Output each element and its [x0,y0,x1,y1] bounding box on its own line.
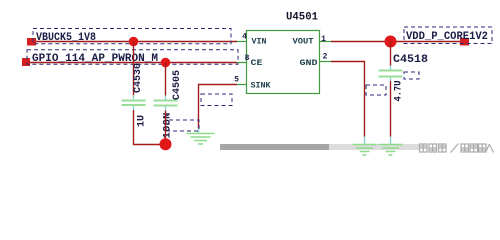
pin 8 stub (CE) [237,62,247,64]
svg-text:SINK: SINK [251,80,272,90]
ground (C4518) [379,137,403,156]
node VDD_P_CORE1V2 port square [460,38,469,46]
wire C4505 top lead [165,63,167,96]
node GPIO_114_AP_PWRON_M port square [22,58,30,66]
svg-text:GND: GND [300,58,318,68]
svg-text:1: 1 [321,35,326,44]
IC U4501 body [247,31,320,94]
selection box around VDD label [404,27,492,44]
wire C4530 top lead [133,42,135,96]
capacitor C4505 [154,96,178,111]
svg-text:VDD_P_CORE1V2: VDD_P_CORE1V2 [406,31,488,43]
selection box B near 100N [169,120,199,131]
wire GND pin to ground [331,62,365,137]
svg-text:C4505: C4505 [172,70,183,100]
selection box C near 4.7U [366,85,386,95]
wire net VBUCK5_1V8 [36,41,237,43]
svg-text:2: 2 [323,53,328,62]
svg-text:100N: 100N [163,113,174,139]
selection box D near C4518 [404,72,419,79]
wire C4530 bottom lead [134,110,166,145]
svg-text:VBUCK5_1V8: VBUCK5_1V8 [36,32,96,44]
capacitor C4530 [122,95,146,110]
wire C4518 top lead [390,42,392,67]
wire net GPIO_114_AP_PWRON_M [30,62,237,64]
svg-text:1U: 1U [137,115,148,127]
watermark grey bar [220,144,329,150]
pin 1 stub (VOUT) [320,41,332,43]
selection box A near SINK wire [201,94,232,106]
pin 2 stub (GND) [320,61,332,63]
node VBUCK5_1V8 port square [27,38,36,46]
wire VOUT to VDD_P_CORE1V2 [331,41,464,43]
svg-text:5: 5 [234,76,239,85]
svg-text:VOUT: VOUT [293,37,314,47]
junction dot on VBUCK5_1V8 at C4530 [129,37,139,47]
svg-text:VIN: VIN [252,37,267,47]
wire SINK to ground [199,85,238,129]
svg-text:4.7U: 4.7U [394,81,405,102]
pin 4 stub (VIN) [237,41,247,43]
wire C4505 bottom lead [165,111,167,145]
ground (SINK) [187,128,215,144]
svg-text:C4518: C4518 [393,54,428,66]
wire C4518 bottom lead [390,81,392,137]
pin 5 stub (SINK) [237,84,247,86]
svg-text:U4501: U4501 [286,11,318,23]
junction dot bottom caps [160,138,172,150]
capacitor C4518 [379,66,403,82]
junction dot on VOUT wire at C4518 [385,36,397,48]
svg-text:C4530: C4530 [133,63,144,93]
ground (GND pin) [353,137,377,156]
svg-text:4: 4 [242,33,247,42]
watermark text (simulated CJK glyphs) [420,144,494,153]
junction dot on GPIO wire at C4505 [161,58,171,68]
svg-text:8: 8 [245,54,250,63]
selection box around GPIO label [27,50,238,64]
selection box around VBUCK5_1V8 [33,29,231,44]
svg-text:CE: CE [251,58,263,68]
